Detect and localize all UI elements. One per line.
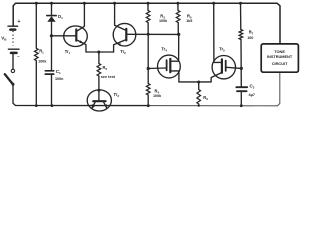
svg-text:100k: 100k xyxy=(38,59,47,63)
svg-text:100n: 100n xyxy=(55,77,64,81)
svg-text:see text: see text xyxy=(101,75,116,79)
svg-text:INSTRUMENT: INSTRUMENT xyxy=(267,55,293,59)
svg-text:+: + xyxy=(17,19,20,25)
svg-text:100k: 100k xyxy=(159,19,168,23)
svg-text:CIRCUIT: CIRCUIT xyxy=(272,61,288,66)
svg-text:TONE: TONE xyxy=(274,49,285,54)
svg-text:1k5: 1k5 xyxy=(186,19,192,23)
svg-text:100: 100 xyxy=(247,36,253,40)
svg-text:4μ7: 4μ7 xyxy=(249,93,256,97)
svg-text:100k: 100k xyxy=(153,94,162,98)
